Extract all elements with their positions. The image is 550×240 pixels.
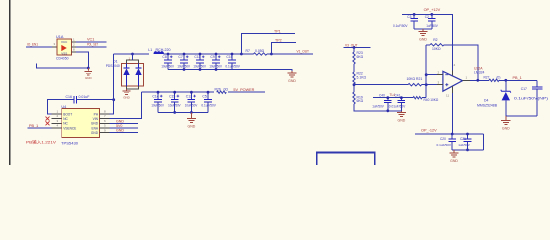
wire stub tail on ground net [36, 63, 88, 68]
pin 5 ENA stub [100, 127, 110, 129]
svg-text:D1: D1 [113, 59, 118, 63]
junction TP1 tap [240, 53, 243, 56]
wire feedback to -input [426, 74, 437, 76]
wire GND net pin 6 [110, 122, 138, 124]
wire 5V0 net pin 5 [110, 127, 138, 129]
svg-text:3: 3 [54, 42, 56, 46]
op-buffer U1A CD4050 [57, 39, 71, 55]
svg-text:VSENCE: VSENCE [63, 126, 76, 130]
pin 3 NC stub [52, 122, 62, 124]
wire test point TP2 [271, 42, 296, 54]
svg-text:5V_POWER: 5V_POWER [233, 88, 254, 92]
svg-text:1: 1 [57, 110, 59, 114]
svg-text:1uF/50V: 1uF/50V [458, 143, 470, 147]
junction C40 comp wire [386, 96, 389, 99]
svg-text:4: 4 [454, 63, 456, 67]
vertical link to comp wire [425, 85, 427, 98]
svg-text:10uF/50V: 10uF/50V [209, 65, 222, 69]
wire switch rail PH node to L1 [114, 53, 149, 55]
pin 11 negative supply [452, 86, 454, 93]
svg-text:6KΩ: 6KΩ [357, 99, 364, 103]
svg-text:GND: GND [123, 96, 130, 100]
svg-text:0.01uF: 0.01uF [79, 95, 90, 99]
svg-text:C2: C2 [425, 15, 429, 19]
svg-text:ENA: ENA [91, 126, 98, 130]
svg-text:R2: R2 [433, 38, 437, 42]
svg-text:6: 6 [104, 119, 106, 123]
wire PB_1 to VSENCE [28, 127, 52, 129]
svg-text:GND: GND [288, 79, 296, 83]
svg-text:VSS: VSS [61, 52, 67, 56]
regulator U4 TPS5430 body [62, 109, 100, 138]
pin 8 stub VSS [71, 51, 76, 53]
dual diode D1 PDS1040 body [121, 64, 143, 87]
bottom wire zener to C17 [506, 115, 537, 117]
junction divider tap [353, 83, 356, 86]
svg-text:5: 5 [104, 124, 106, 128]
capacitor C3 0.1uF [413, 14, 415, 18]
+12V rail [402, 14, 453, 70]
svg-text:1: 1 [466, 75, 468, 79]
svg-text:IO_EN1: IO_EN1 [27, 43, 38, 47]
svg-text:10uF/50V: 10uF/50V [151, 104, 164, 108]
svg-text:(0): (0) [497, 76, 501, 80]
capacitor C21 1uF [467, 134, 469, 139]
junction D1 at rail [131, 53, 134, 56]
svg-text:GND: GND [91, 131, 99, 135]
svg-text:PB输入1.221V: PB输入1.221V [26, 139, 56, 145]
svg-text:8: 8 [73, 47, 75, 51]
svg-text:5.1KΩ: 5.1KΩ [357, 75, 367, 79]
pin 2 stub -input [437, 74, 443, 76]
junction on VSS ground wire [87, 67, 90, 70]
diode element right [136, 67, 142, 69]
capacitor C7 10uF/50V [183, 54, 185, 60]
-12V rail [415, 133, 483, 135]
svg-text:R26: R26 [215, 87, 221, 91]
svg-text:OP_+12V: OP_+12V [424, 8, 441, 12]
lower schematic block outline [317, 153, 375, 173]
series resistor R21 10K [408, 84, 422, 86]
wire R26 to 5V_POWER [228, 91, 265, 93]
junction C16/PH node [112, 98, 115, 101]
capacitor C5 0.1uF/50V [207, 92, 209, 99]
wire VSS pin down to ground [76, 52, 88, 68]
svg-text:PB_1: PB_1 [29, 124, 38, 128]
junction pin11 at -12V rail [451, 133, 454, 136]
svg-text:3: 3 [438, 80, 440, 84]
svg-text:GND: GND [502, 127, 510, 131]
resistor R40 10K [413, 97, 422, 99]
svg-text:C41: C41 [395, 94, 401, 98]
svg-text:10uF/50V: 10uF/50V [185, 104, 198, 108]
svg-text:6KΩ: 6KΩ [357, 55, 364, 59]
svg-text:OP_-12V: OP_-12V [421, 128, 437, 132]
svg-text:TPS5430: TPS5430 [61, 141, 78, 145]
no-connect cross pin 3 [46, 121, 50, 125]
svg-text:VC1: VC1 [87, 38, 94, 42]
svg-text:TP1: TP1 [274, 29, 281, 33]
svg-text:GND: GND [85, 76, 92, 80]
svg-text:C40: C40 [379, 94, 385, 98]
svg-text:C11: C11 [194, 55, 200, 59]
svg-text:R27: R27 [484, 76, 490, 80]
junction feedback tap at output [476, 79, 479, 82]
svg-text:C3: C3 [407, 15, 411, 19]
svg-text:7: 7 [104, 114, 106, 118]
svg-text:C7: C7 [178, 55, 182, 59]
svg-text:GND: GND [419, 38, 427, 42]
svg-text:VCC: VCC [61, 40, 68, 44]
zener D4 MMSZ5248B [505, 80, 507, 91]
ground of +12V caps [422, 29, 424, 31]
svg-text:0.1uF/50V: 0.1uF/50V [393, 24, 408, 28]
wire output pin to net POL_SET [76, 46, 107, 48]
input bank ground rail [158, 111, 208, 113]
capacitor C17 0.1uF [536, 80, 538, 87]
svg-text:1: 1 [73, 37, 75, 41]
junction TP2 tap [270, 53, 273, 56]
svg-text:GND: GND [188, 125, 196, 129]
wire R2 to output node [444, 45, 478, 81]
svg-text:C15: C15 [169, 95, 175, 99]
svg-text:C10: C10 [226, 55, 232, 59]
pin 9 GND stub [100, 132, 110, 134]
cathode stubs join to rail [127, 60, 139, 64]
wire divider tap to op-amp +input [354, 84, 408, 86]
wire IO_EN1 input to U1A pin 3 [26, 46, 52, 48]
svg-text:C17: C17 [521, 87, 527, 91]
pin 3 stub of U1A [52, 46, 57, 48]
wire test point TP1 [241, 33, 295, 54]
svg-text:C9: C9 [210, 55, 214, 59]
wire GND net pin 9 [110, 132, 138, 134]
capacitor C9 10uF/50V [215, 54, 217, 60]
resistor R19 divider bottom [353, 85, 355, 92]
ground of divider [400, 110, 402, 113]
pin 2 stub output [71, 46, 76, 48]
pin 4 positive supply [452, 71, 454, 76]
wire VCC pin to net VC1 [76, 41, 107, 43]
wire R7 to V1_OUT [267, 53, 313, 55]
wire output to PB_1 [499, 79, 537, 81]
feedback wire vertical [425, 45, 427, 85]
pin 7 VIN stub [100, 118, 110, 120]
pin 3 stub +input [437, 84, 443, 86]
svg-text:C21: C21 [460, 137, 466, 141]
svg-text:0.1uF/50V: 0.1uF/50V [437, 143, 452, 147]
svg-text:D4: D4 [484, 98, 488, 102]
svg-text:GND: GND [91, 122, 99, 126]
resistor R26 0 ohm [217, 91, 227, 93]
inductor L1 RCH-220 [154, 52, 163, 54]
svg-text:10KΩ: 10KΩ [432, 47, 441, 51]
wire BOOT pin up to C16 [48, 100, 74, 114]
svg-text:TP2: TP2 [275, 38, 282, 42]
svg-text:C5: C5 [202, 95, 206, 99]
svg-text:C16: C16 [66, 95, 72, 99]
svg-text:2: 2 [438, 70, 440, 74]
wire L1 to output rail [164, 53, 242, 55]
svg-text:GND: GND [116, 129, 124, 133]
capacitor C14 10uF/50V [157, 92, 159, 99]
output rail ground return [168, 70, 292, 73]
svg-text:0.1uF/50V: 0.1uF/50V [201, 104, 216, 108]
schematic sheet border line [9, 0, 11, 165]
wire C16 to PH node [77, 99, 114, 101]
wire V3_OUT stub [343, 47, 370, 49]
svg-text:10uF/50V: 10uF/50V [177, 65, 190, 69]
resistor R23 divider top [353, 48, 355, 53]
capacitor C2 1uF [431, 14, 433, 18]
svg-text:U1A: U1A [56, 35, 64, 39]
ground of output cap bank [291, 71, 293, 73]
resistor R27 0 ohm output [489, 79, 499, 81]
junction L1 output [167, 53, 170, 56]
junction feedback at -input [425, 73, 428, 76]
capacitor C10 0.1uF/50V [231, 54, 233, 60]
capacitor C11 10uF/50V [199, 54, 201, 60]
junction V3_OUT [353, 46, 356, 49]
junction zener tap [504, 79, 507, 82]
svg-text:3: 3 [57, 119, 59, 123]
capacitor C40 1uF [387, 98, 389, 101]
capacitor C41 0.01uF [400, 98, 402, 101]
ground below U1A [87, 68, 89, 71]
svg-text:C14: C14 [152, 95, 158, 99]
svg-text:C12: C12 [186, 95, 192, 99]
svg-text:C20: C20 [440, 137, 446, 141]
ground of zener [505, 116, 507, 120]
svg-text:2: 2 [57, 114, 59, 118]
pin 1 output stub [463, 79, 471, 81]
op-amp U22A LM324 [443, 71, 463, 91]
diode element left [124, 67, 130, 69]
svg-text:GND: GND [398, 119, 406, 123]
svg-text:10uF/50V: 10uF/50V [161, 65, 174, 69]
wire divider bottom to ground rail [354, 104, 401, 111]
compensation wire with caps [373, 97, 413, 99]
svg-text:8: 8 [104, 110, 106, 114]
resistor R22 divider middle [353, 72, 355, 84]
pin 8 PH stub [100, 113, 110, 115]
svg-text:LM324: LM324 [474, 71, 484, 75]
svg-text:9: 9 [104, 128, 106, 132]
svg-text:0.1uF/50V: 0.1uF/50V [225, 65, 240, 69]
junction compensation tap [425, 83, 428, 86]
svg-text:10uF/50V: 10uF/50V [193, 65, 206, 69]
capacitor C8 10uF/50V [167, 54, 169, 60]
svg-text:RCH-220: RCH-220 [156, 48, 171, 52]
pin 4 VSENCE stub [52, 127, 62, 129]
svg-text:GND: GND [450, 159, 458, 163]
svg-text:NC: NC [63, 117, 68, 121]
svg-text:4: 4 [57, 124, 59, 128]
capacitor C12 10uF/50V [190, 92, 192, 99]
pin 2 NC stub [52, 118, 62, 120]
svg-text:BOOT: BOOT [63, 112, 72, 116]
wire PH pin up to switch rail [110, 54, 114, 114]
+12V decoupling ground rail [414, 28, 432, 30]
svg-text:0.01uF/50V: 0.01uF/50V [389, 104, 406, 108]
svg-text:0.05Ω: 0.05Ω [255, 49, 265, 53]
capacitor C16 0.01uF [73, 96, 75, 103]
svg-text:1uF/50V: 1uF/50V [372, 104, 384, 108]
svg-text:10KΩ R21: 10KΩ R21 [407, 77, 423, 81]
svg-text:5V0: 5V0 [116, 124, 122, 128]
pin 1 stub VCC [71, 41, 76, 43]
right return of -12V rail [482, 134, 484, 150]
svg-text:10uF/50V: 10uF/50V [168, 104, 181, 108]
svg-text:11: 11 [446, 94, 449, 98]
svg-text:CD4050: CD4050 [56, 56, 69, 60]
svg-text:U4: U4 [61, 105, 66, 109]
svg-text:PDS1040: PDS1040 [106, 64, 120, 68]
svg-text:R7: R7 [246, 49, 250, 53]
resistor R7 0.05 ohm [241, 53, 253, 55]
ground below D1 [126, 89, 128, 90]
pin 6 GND stub [100, 122, 110, 124]
svg-text:R40 10KΩ: R40 10KΩ [424, 98, 439, 102]
svg-text:0.1uF/50V(NP): 0.1uF/50V(NP) [514, 96, 548, 100]
svg-text:PB_1: PB_1 [513, 76, 522, 80]
svg-text:L1: L1 [148, 48, 152, 52]
svg-text:1uF/50V: 1uF/50V [426, 24, 438, 28]
svg-text:V1_OUT: V1_OUT [297, 50, 310, 54]
svg-text:GND: GND [116, 119, 124, 123]
svg-text:PH: PH [94, 112, 99, 116]
svg-text:2: 2 [73, 42, 75, 46]
svg-text:MMSZ5248B: MMSZ5248B [477, 104, 498, 108]
anode stubs join to ground [127, 86, 139, 89]
wire VIN pin to input rail [110, 92, 142, 118]
no-connect cross pin 2 [46, 117, 50, 121]
svg-text:V3_OUT: V3_OUT [345, 43, 358, 47]
output wire [470, 79, 489, 81]
-12V decoupling ground rail [452, 149, 483, 151]
resistor R2 10K feedback [430, 44, 444, 46]
svg-text:C8: C8 [162, 55, 166, 59]
input rail from VIN [141, 91, 214, 93]
ground of input cap bank [190, 112, 192, 117]
svg-text:VIN: VIN [93, 117, 99, 121]
capacitor C20 0.1uF [451, 134, 453, 139]
ground of -12V caps [453, 150, 455, 152]
junction cap taps on +12V [413, 13, 416, 16]
svg-text:0Ω: 0Ω [224, 87, 229, 91]
pin 1 BOOT stub [52, 113, 62, 115]
capacitor C15 10uF/50V [174, 92, 176, 99]
svg-text:NC: NC [63, 122, 68, 126]
svg-text:POL_SET: POL_SET [87, 43, 98, 47]
